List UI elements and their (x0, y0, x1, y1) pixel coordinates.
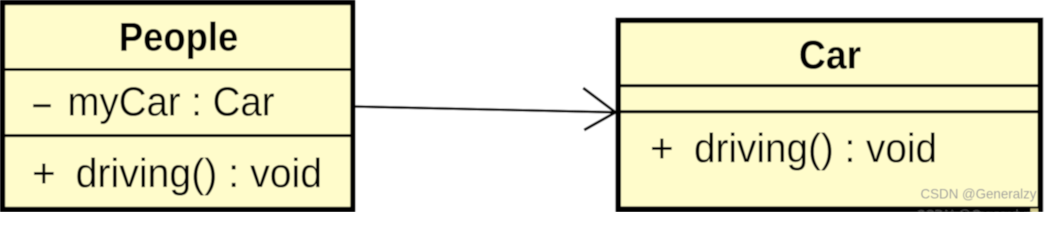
svg-text:myCar : Car: myCar : Car (68, 79, 275, 125)
watermark emoji fragment bottom right (1031, 209, 1039, 212)
arrow head open barbs (583, 88, 615, 130)
People attribute/method separator (0, 134, 355, 137)
Car attribute/method separator (616, 110, 1042, 113)
svg-text:+: + (650, 125, 674, 171)
svg-text:CSDN @Generalzy: CSDN @Generalzy (916, 207, 1032, 212)
svg-text:Car: Car (799, 34, 861, 78)
svg-text:People: People (119, 15, 238, 59)
svg-text:+: + (32, 150, 56, 196)
People title/attribute separator (0, 68, 355, 71)
svg-text:driving() : void: driving() : void (76, 150, 323, 196)
class People box (3, 3, 353, 210)
svg-text:CSDN @Generalzy: CSDN @Generalzy (921, 186, 1037, 201)
svg-text:driving() : void: driving() : void (694, 125, 937, 171)
People attribute - myCar : Car (33, 104, 51, 107)
association arrow wire People->Car (354, 107, 615, 113)
Car title/attribute separator (616, 84, 1042, 87)
class Car box (618, 20, 1040, 209)
